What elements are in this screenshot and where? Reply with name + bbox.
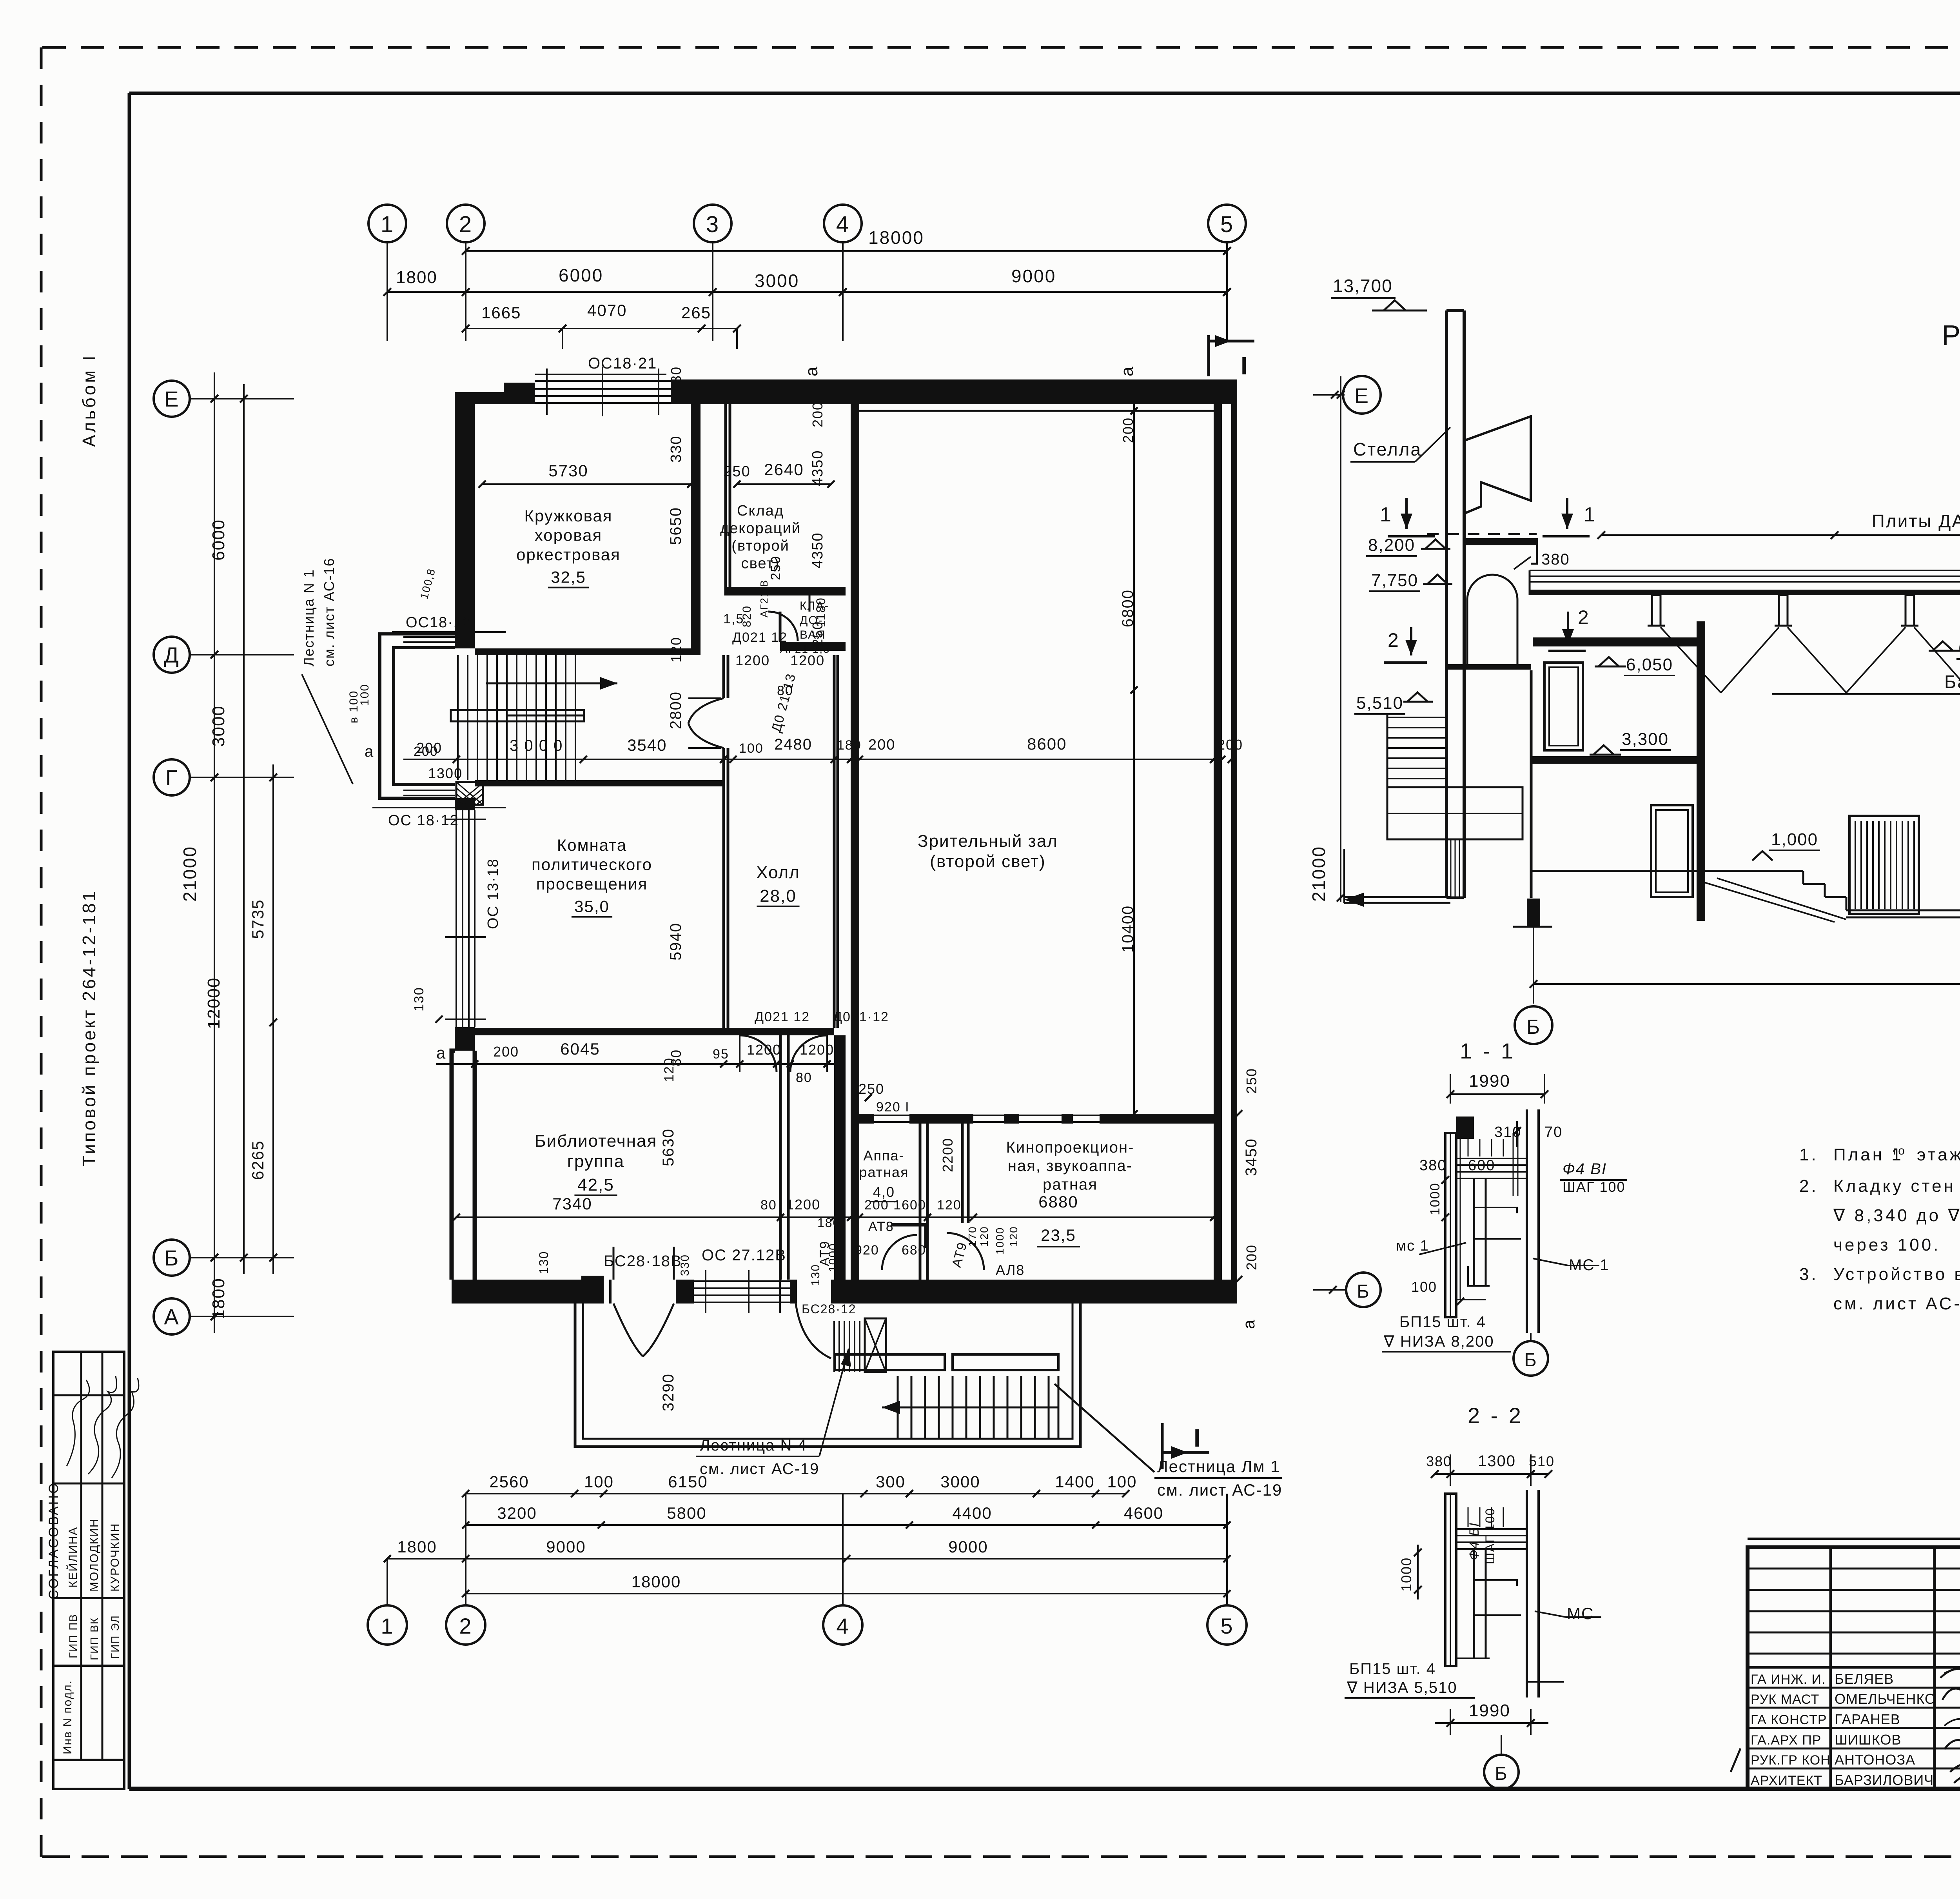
svg-text:120: 120 bbox=[1007, 1226, 1020, 1247]
svg-text:2560: 2560 bbox=[489, 1472, 529, 1491]
svg-text:Б: Б bbox=[1357, 1281, 1370, 1302]
svg-text:9000: 9000 bbox=[546, 1538, 586, 1556]
svg-text:ШАГ 100: ШАГ 100 bbox=[1563, 1179, 1626, 1195]
svg-text:3450: 3450 bbox=[1243, 1138, 1260, 1176]
svg-text:1200: 1200 bbox=[735, 652, 770, 668]
svg-text:3000: 3000 bbox=[755, 271, 799, 291]
svg-text:Е: Е bbox=[164, 387, 179, 411]
svg-text:95: 95 bbox=[713, 1047, 729, 1062]
svg-text:ОС18·12: ОС18·12 bbox=[406, 614, 472, 631]
svg-text:∇ 8,340 до ∇ 13,700 сеткой: ∇ 8,340 до ∇ 13,700 сеткой из Ф 4 ВI яче… bbox=[1833, 1206, 1960, 1225]
svg-text:просвещения: просвещения bbox=[536, 875, 648, 893]
svg-text:250: 250 bbox=[1243, 1068, 1259, 1094]
svg-text:см. лист АС-19: см. лист АС-19 bbox=[700, 1460, 819, 1478]
svg-text:1,000: 1,000 bbox=[1771, 830, 1818, 849]
svg-text:Е: Е bbox=[1354, 384, 1369, 408]
svg-text:28,0: 28,0 bbox=[760, 886, 797, 906]
svg-text:1800: 1800 bbox=[396, 268, 437, 287]
svg-text:6,300: 6,300 bbox=[1958, 639, 1960, 658]
svg-text:9000: 9000 bbox=[948, 1538, 988, 1556]
svg-text:в 100: в 100 bbox=[347, 690, 360, 723]
svg-text:Альбом I: Альбом I bbox=[79, 353, 99, 447]
svg-text:ОС18·21: ОС18·21 bbox=[588, 355, 657, 372]
svg-text:3000: 3000 bbox=[209, 705, 228, 747]
svg-text:ОС 18·12: ОС 18·12 bbox=[388, 812, 459, 829]
svg-text:200: 200 bbox=[414, 744, 438, 759]
svg-text:120: 120 bbox=[668, 637, 684, 663]
svg-text:А: А bbox=[164, 1304, 179, 1329]
svg-text:ВАЯ: ВАЯ bbox=[800, 628, 826, 641]
svg-text:АНТОНОЗА: АНТОНОЗА bbox=[1835, 1752, 1915, 1768]
svg-text:8,200: 8,200 bbox=[1368, 536, 1415, 555]
svg-text:1800: 1800 bbox=[209, 1278, 228, 1319]
svg-text:32,5: 32,5 bbox=[551, 568, 586, 586]
svg-text:МС: МС bbox=[1567, 1604, 1594, 1623]
svg-text:5650: 5650 bbox=[667, 507, 684, 545]
svg-text:КУРОЧКИН: КУРОЧКИН bbox=[109, 1523, 122, 1592]
svg-text:1180: 1180 bbox=[814, 597, 828, 627]
svg-text:21000: 21000 bbox=[180, 846, 200, 902]
svg-text:6000: 6000 bbox=[209, 519, 228, 561]
svg-text:ратная: ратная bbox=[859, 1164, 909, 1180]
svg-text:120: 120 bbox=[662, 1057, 677, 1082]
svg-text:План 1: План 1 bbox=[1833, 1145, 1904, 1164]
svg-text:а: а bbox=[802, 366, 821, 376]
svg-text:Кинопроекцион-: Кинопроекцион- bbox=[1006, 1139, 1134, 1156]
svg-text:1000: 1000 bbox=[827, 1243, 840, 1272]
svg-text:1.: 1. bbox=[1799, 1145, 1818, 1164]
svg-text:Инв N подл.: Инв N подл. bbox=[61, 1680, 74, 1754]
svg-text:5730: 5730 bbox=[548, 461, 588, 480]
svg-text:200 1600: 200 1600 bbox=[864, 1198, 926, 1213]
svg-text:1: 1 bbox=[1380, 503, 1392, 526]
svg-text:Лестница N 1: Лестница N 1 bbox=[301, 569, 317, 666]
svg-text:200: 200 bbox=[1217, 737, 1243, 753]
svg-text:Ф4 ВI: Ф4 ВI bbox=[1467, 1522, 1482, 1560]
svg-text:Зрительный зал: Зрительный зал bbox=[918, 831, 1058, 851]
svg-text:∇ НИЗА 5,510: ∇ НИЗА 5,510 bbox=[1347, 1679, 1457, 1696]
svg-text:Типовой проект 264-12-181: Типовой проект 264-12-181 bbox=[79, 889, 99, 1166]
svg-text:БАРЗИЛОВИЧ: БАРЗИЛОВИЧ bbox=[1835, 1772, 1934, 1788]
svg-text:1000: 1000 bbox=[994, 1227, 1006, 1255]
svg-text:6265: 6265 bbox=[249, 1140, 267, 1180]
svg-text:Кружковая: Кружковая bbox=[524, 507, 612, 525]
svg-text:1: 1 bbox=[381, 212, 394, 237]
svg-text:Б: Б bbox=[1524, 1350, 1537, 1371]
svg-text:35,0: 35,0 bbox=[574, 897, 610, 916]
svg-text:100: 100 bbox=[1411, 1279, 1437, 1295]
svg-text:(второй: (второй bbox=[731, 538, 789, 554]
svg-text:2800: 2800 bbox=[667, 691, 684, 729]
svg-text:РУК.ГР КОН: РУК.ГР КОН bbox=[1751, 1753, 1831, 1768]
svg-text:9000: 9000 bbox=[1011, 266, 1056, 286]
svg-text:1990: 1990 bbox=[1469, 1071, 1510, 1091]
svg-text:1400: 1400 bbox=[1055, 1472, 1094, 1491]
svg-text:2: 2 bbox=[459, 1614, 472, 1638]
svg-text:этажа смотри лист АС-6.: этажа смотри лист АС-6. bbox=[1917, 1145, 1960, 1164]
svg-text:23,5: 23,5 bbox=[1041, 1226, 1076, 1244]
svg-text:4070: 4070 bbox=[587, 301, 627, 320]
svg-text:БП15 шт. 4: БП15 шт. 4 bbox=[1349, 1660, 1436, 1678]
svg-text:АТ8: АТ8 bbox=[868, 1219, 894, 1234]
svg-text:4: 4 bbox=[836, 1614, 849, 1638]
svg-text:100: 100 bbox=[1107, 1472, 1137, 1491]
svg-text:2.: 2. bbox=[1799, 1176, 1818, 1196]
svg-text:180: 180 bbox=[817, 1216, 840, 1230]
svg-text:АЛ8: АЛ8 bbox=[996, 1262, 1025, 1278]
svg-text:300: 300 bbox=[876, 1472, 906, 1491]
svg-text:а: а bbox=[365, 743, 374, 760]
svg-text:Ф4 ВI: Ф4 ВI bbox=[1563, 1160, 1607, 1178]
svg-text:6880: 6880 bbox=[1038, 1193, 1078, 1211]
svg-text:1300: 1300 bbox=[1478, 1452, 1516, 1470]
svg-text:через 100.: через 100. bbox=[1833, 1235, 1940, 1255]
svg-text:7,750: 7,750 bbox=[1371, 571, 1418, 590]
svg-text:см. лист АС-19: см. лист АС-19 bbox=[1157, 1481, 1282, 1499]
svg-text:∇ НИЗА 8,200: ∇ НИЗА 8,200 bbox=[1383, 1333, 1494, 1350]
svg-text:Балки БК09-1: Балки БК09-1 bbox=[1944, 672, 1960, 692]
svg-text:3.: 3. bbox=[1799, 1265, 1818, 1284]
svg-text:ГА ИНЖ. И.: ГА ИНЖ. И. bbox=[1751, 1672, 1826, 1687]
svg-text:1000: 1000 bbox=[1398, 1557, 1414, 1592]
svg-text:БС28·18В: БС28·18В bbox=[604, 1253, 682, 1270]
svg-text:1200: 1200 bbox=[786, 1196, 820, 1213]
svg-text:Разрез I-I: Разрез I-I bbox=[1942, 320, 1960, 351]
svg-text:250: 250 bbox=[768, 556, 783, 580]
svg-text:80: 80 bbox=[796, 1070, 812, 1085]
svg-text:а: а bbox=[1240, 1319, 1258, 1329]
svg-text:3200: 3200 bbox=[497, 1504, 537, 1522]
svg-text:200: 200 bbox=[809, 401, 826, 427]
svg-text:Д021 12: Д021 12 bbox=[755, 1009, 810, 1024]
svg-text:ГИП ПВ: ГИП ПВ bbox=[67, 1614, 79, 1658]
svg-text:ШАГ 100: ШАГ 100 bbox=[1483, 1508, 1497, 1564]
svg-text:7340: 7340 bbox=[552, 1195, 592, 1213]
svg-text:го: го bbox=[1893, 1144, 1906, 1157]
svg-text:1: 1 bbox=[381, 1614, 394, 1638]
svg-text:ОС 27.12В: ОС 27.12В bbox=[702, 1247, 786, 1264]
svg-text:Устройство вентиляционных ка: Устройство вентиляционных каналов , ниш … bbox=[1833, 1265, 1960, 1284]
svg-text:БС28·12: БС28·12 bbox=[802, 1302, 857, 1316]
svg-text:200: 200 bbox=[1243, 1244, 1259, 1270]
svg-text:Лестница N 4: Лестница N 4 bbox=[700, 1437, 807, 1454]
svg-text:политического: политического bbox=[532, 855, 652, 874]
svg-text:ОС 13·18: ОС 13·18 bbox=[485, 858, 501, 929]
svg-text:2 - 2: 2 - 2 bbox=[1468, 1403, 1523, 1428]
svg-text:2480: 2480 bbox=[774, 736, 812, 753]
svg-text:330: 330 bbox=[668, 436, 684, 463]
svg-text:42,5: 42,5 bbox=[577, 1175, 614, 1195]
svg-text:5,510: 5,510 bbox=[1356, 694, 1403, 713]
svg-text:6045: 6045 bbox=[560, 1040, 600, 1058]
svg-text:а: а bbox=[436, 1044, 446, 1062]
svg-text:6,050: 6,050 bbox=[1626, 655, 1673, 674]
svg-text:ГИП ЭЛ: ГИП ЭЛ bbox=[109, 1615, 121, 1659]
svg-text:5630: 5630 bbox=[660, 1128, 677, 1166]
svg-text:КЕЙЛИНА: КЕЙЛИНА bbox=[66, 1527, 80, 1588]
svg-text:1990: 1990 bbox=[1469, 1701, 1510, 1720]
svg-text:820: 820 bbox=[740, 605, 753, 627]
svg-text:920 I: 920 I bbox=[876, 1100, 910, 1115]
svg-text:70: 70 bbox=[1544, 1124, 1563, 1140]
svg-text:21000: 21000 bbox=[1308, 846, 1329, 902]
svg-text:1 - 1: 1 - 1 bbox=[1460, 1038, 1515, 1063]
svg-text:1800: 1800 bbox=[397, 1538, 437, 1556]
svg-text:5735: 5735 bbox=[249, 899, 267, 939]
svg-text:Плиты ДАФ 1 -3.1,5: Плиты ДАФ 1 -3.1,5 bbox=[1872, 511, 1960, 531]
svg-text:130: 130 bbox=[668, 366, 684, 392]
svg-text:380: 380 bbox=[1541, 551, 1570, 568]
svg-text:МОЛОДКИН: МОЛОДКИН bbox=[88, 1518, 101, 1592]
svg-text:БЕЛЯЕВ: БЕЛЯЕВ bbox=[1835, 1671, 1894, 1687]
svg-text:1665: 1665 bbox=[481, 303, 521, 322]
svg-text:(второй свет): (второй свет) bbox=[930, 852, 1046, 871]
svg-text:380: 380 bbox=[1426, 1453, 1452, 1469]
svg-text:АРХИТЕКТ: АРХИТЕКТ bbox=[1751, 1773, 1822, 1788]
svg-text:18000: 18000 bbox=[632, 1572, 681, 1591]
svg-text:130: 130 bbox=[412, 987, 426, 1011]
svg-text:12000: 12000 bbox=[204, 977, 223, 1029]
svg-text:6150: 6150 bbox=[668, 1472, 708, 1491]
svg-text:510: 510 bbox=[1529, 1453, 1555, 1469]
svg-text:3: 3 bbox=[706, 212, 719, 237]
svg-text:Г: Г bbox=[165, 765, 178, 790]
svg-text:600: 600 bbox=[1468, 1157, 1495, 1174]
svg-text:4350: 4350 bbox=[809, 532, 826, 568]
svg-text:Лестница Лм 1: Лестница Лм 1 bbox=[1157, 1457, 1280, 1476]
svg-text:Комната: Комната bbox=[557, 836, 627, 854]
svg-text:4: 4 bbox=[836, 212, 849, 237]
svg-text:ГА.АРХ ПР: ГА.АРХ ПР bbox=[1751, 1733, 1821, 1748]
svg-text:Склад: Склад bbox=[737, 503, 784, 519]
svg-text:см. лист АС-16: см. лист АС-16 bbox=[321, 557, 337, 666]
svg-text:13,700: 13,700 bbox=[1333, 276, 1393, 296]
svg-text:I: I bbox=[1241, 352, 1249, 380]
svg-text:100: 100 bbox=[739, 741, 764, 756]
svg-text:Стелла: Стелла bbox=[1353, 439, 1422, 459]
svg-text:1300: 1300 bbox=[428, 765, 463, 781]
svg-text:3000: 3000 bbox=[940, 1472, 980, 1491]
svg-text:Д021 12: Д021 12 bbox=[732, 630, 788, 645]
svg-text:3540: 3540 bbox=[627, 736, 667, 754]
svg-text:200: 200 bbox=[868, 737, 895, 753]
svg-text:группа: группа bbox=[567, 1152, 624, 1171]
svg-text:6000: 6000 bbox=[559, 265, 603, 285]
svg-text:4400: 4400 bbox=[952, 1504, 992, 1522]
svg-text:ГАРАНЕВ: ГАРАНЕВ bbox=[1835, 1711, 1900, 1727]
svg-text:Холл: Холл bbox=[756, 863, 800, 882]
svg-text:Аппа-: Аппа- bbox=[863, 1147, 904, 1164]
svg-text:оркестровая: оркестровая bbox=[516, 545, 621, 564]
svg-text:ратная: ратная bbox=[1043, 1176, 1098, 1193]
svg-text:декораций: декораций bbox=[720, 520, 801, 537]
svg-text:18000: 18000 bbox=[868, 227, 924, 248]
svg-text:120: 120 bbox=[978, 1226, 990, 1247]
svg-text:Д: Д bbox=[164, 643, 180, 667]
svg-text:100: 100 bbox=[584, 1472, 614, 1491]
svg-text:5940: 5940 bbox=[667, 922, 684, 960]
svg-text:хоровая: хоровая bbox=[535, 526, 603, 545]
svg-text:1: 1 bbox=[1584, 503, 1596, 526]
svg-text:380: 380 bbox=[1419, 1157, 1446, 1174]
svg-text:АГ21 В: АГ21 В bbox=[758, 579, 770, 617]
svg-text:СОГЛАСОВАНО: СОГЛАСОВАНО bbox=[46, 1482, 61, 1599]
svg-text:Кладку стен стеллы армирова: Кладку стен стеллы армировать на высоту … bbox=[1833, 1176, 1960, 1196]
svg-text:БП15 шт. 4: БП15 шт. 4 bbox=[1399, 1313, 1486, 1331]
svg-text:2: 2 bbox=[459, 212, 472, 237]
svg-text:8600: 8600 bbox=[1027, 735, 1067, 753]
svg-text:180: 180 bbox=[837, 738, 862, 753]
svg-text:3,300: 3,300 bbox=[1622, 730, 1669, 749]
svg-text:250: 250 bbox=[723, 463, 750, 480]
svg-text:170: 170 bbox=[966, 1226, 978, 1247]
svg-text:Б: Б bbox=[1495, 1763, 1508, 1784]
svg-text:2640: 2640 bbox=[764, 460, 804, 479]
svg-text:см. лист АС-7.: см. лист АС-7. bbox=[1833, 1294, 1960, 1313]
svg-text:Д021·12: Д021·12 bbox=[833, 1009, 889, 1024]
svg-text:5: 5 bbox=[1220, 212, 1234, 237]
svg-text:4350: 4350 bbox=[809, 450, 826, 486]
svg-text:920: 920 bbox=[855, 1243, 879, 1258]
svg-text:1200: 1200 bbox=[800, 1042, 834, 1058]
svg-text:1000: 1000 bbox=[1428, 1182, 1443, 1215]
svg-text:ГИП ВК: ГИП ВК bbox=[88, 1617, 100, 1660]
svg-text:ОМЕЛЬЧЕНКО: ОМЕЛЬЧЕНКО bbox=[1835, 1691, 1936, 1707]
svg-text:5: 5 bbox=[1220, 1614, 1233, 1638]
svg-text:1200: 1200 bbox=[747, 1042, 781, 1058]
svg-text:120: 120 bbox=[937, 1198, 962, 1213]
svg-text:130: 130 bbox=[537, 1251, 551, 1274]
svg-text:2: 2 bbox=[1388, 629, 1399, 651]
svg-text:2200: 2200 bbox=[940, 1138, 956, 1172]
svg-text:80: 80 bbox=[760, 1198, 777, 1213]
svg-text:ШИШКОВ: ШИШКОВ bbox=[1835, 1732, 1901, 1748]
svg-text:2: 2 bbox=[1578, 606, 1590, 628]
svg-text:ная, звукоаппа-: ная, звукоаппа- bbox=[1008, 1157, 1132, 1175]
svg-text:4600: 4600 bbox=[1124, 1504, 1163, 1522]
svg-text:Библиотечная: Библиотечная bbox=[535, 1131, 657, 1151]
svg-text:330: 330 bbox=[679, 1254, 691, 1276]
svg-text:200: 200 bbox=[493, 1044, 519, 1060]
svg-text:265: 265 bbox=[681, 303, 711, 322]
svg-text:РУК МАСТ: РУК МАСТ bbox=[1751, 1692, 1819, 1707]
svg-text:а: а bbox=[1118, 366, 1137, 376]
svg-text:1200: 1200 bbox=[790, 652, 825, 668]
svg-text:ГА КОНСТР: ГА КОНСТР bbox=[1751, 1712, 1827, 1727]
svg-text:Б: Б bbox=[164, 1245, 180, 1270]
svg-text:I: I bbox=[1194, 1424, 1201, 1452]
svg-text:3290: 3290 bbox=[660, 1373, 677, 1411]
svg-text:мс 1: мс 1 bbox=[1396, 1238, 1429, 1254]
svg-text:130: 130 bbox=[809, 1264, 822, 1286]
svg-text:3 0 0 0: 3 0 0 0 bbox=[510, 737, 563, 754]
svg-text:5800: 5800 bbox=[667, 1504, 706, 1522]
svg-text:680: 680 bbox=[902, 1243, 926, 1258]
svg-text:Б: Б bbox=[1526, 1016, 1541, 1038]
